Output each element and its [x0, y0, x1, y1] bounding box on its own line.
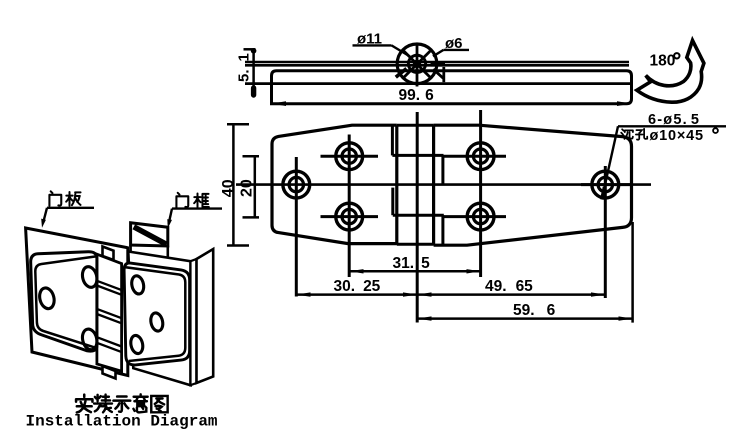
svg-text:99.6: 99.6 — [399, 87, 435, 104]
knuckle barrel — [97, 254, 122, 371]
chen glyph — [621, 129, 633, 139]
dimension 49.65 — [417, 292, 605, 296]
dimension 59.6 — [417, 222, 632, 323]
svg-text:59.6: 59.6 — [513, 302, 556, 319]
left leaf inner edge — [35, 256, 97, 348]
right leaf inner edge — [125, 267, 185, 361]
door panel — [26, 228, 128, 376]
svg-text:ø11: ø11 — [357, 31, 382, 48]
99.6 dimension arrows on bottom edge — [272, 101, 287, 106]
left leaf — [31, 252, 97, 351]
men glyph (door frame) — [176, 193, 188, 208]
holes — [283, 110, 631, 298]
dimension 30.25 — [296, 292, 417, 296]
knuckle left barrel edge — [395, 125, 398, 245]
countersink note — [602, 126, 726, 199]
pin centerline — [416, 112, 419, 323]
dimension 31.5 — [349, 269, 480, 273]
post top face diagonal — [134, 227, 166, 244]
180 degree arrow — [637, 40, 704, 102]
knuckle segment line 1 — [392, 154, 443, 157]
knuckle inner circle (pin) — [408, 55, 425, 72]
right leaf hole B — [149, 312, 164, 332]
leaf top surface line 2 — [245, 64, 629, 67]
horizontal mid centerline — [236, 183, 651, 186]
SIDE VIEW — [245, 43, 632, 107]
knuckle step verticals — [391, 126, 394, 155]
holes H4 H5 shared vertical — [479, 110, 482, 277]
circle diagonal NE-SW — [404, 51, 430, 77]
right leaf hole A — [130, 275, 145, 295]
arrow dash lower-left of circle — [396, 69, 407, 78]
knuckle segment line 2 — [393, 214, 444, 217]
knuckle barrel top edge — [397, 124, 434, 127]
frame board side face — [197, 249, 214, 383]
right flange step vertical — [442, 67, 445, 82]
svg-text:ø10×45: ø10×45 — [650, 128, 704, 144]
svg-text:5.1: 5.1 — [236, 53, 253, 82]
circle diagonal NW-SE — [404, 51, 430, 77]
knuckle barrel bottom edge — [397, 243, 434, 246]
caption: an zhuang shi yi tu — [76, 395, 92, 413]
svg-text:40: 40 — [220, 179, 237, 197]
men glyph (door panel) — [49, 191, 61, 206]
door panel label leader — [41, 208, 94, 228]
right leaf outline — [434, 125, 632, 245]
circle vertical centerline — [416, 43, 419, 87]
INSTALLATION DIAGRAM — [26, 223, 214, 385]
dimension 20 — [243, 156, 260, 217]
svg-text:180: 180 — [650, 53, 676, 70]
hinge body side outline — [272, 71, 632, 104]
dia 11 label — [353, 45, 411, 56]
svg-text:30.25: 30.25 — [334, 278, 381, 295]
door frame label leader — [167, 209, 222, 229]
right flange diagonal — [433, 69, 443, 78]
left leaf hole B — [80, 265, 99, 289]
barrel segment lines — [97, 281, 122, 352]
svg-text:20: 20 — [239, 179, 256, 197]
svg-text:ø6: ø6 — [445, 35, 463, 52]
dia 6 label — [433, 50, 469, 56]
post side edges — [129, 245, 132, 257]
dimension 5.1 — [244, 48, 257, 97]
kong glyph — [636, 129, 647, 140]
svg-text:31.5: 31.5 — [393, 255, 431, 272]
PLAN VIEW — [236, 112, 651, 323]
dimension 40 — [227, 124, 249, 245]
leaf top surface line 1 — [245, 61, 629, 64]
mid reference line (5.1 bottom) — [245, 82, 631, 85]
kuang glyph — [194, 193, 209, 207]
left leaf outline — [272, 125, 397, 243]
pin stub top — [103, 247, 114, 261]
hole H1 left — [295, 157, 298, 297]
pin stub bottom — [103, 366, 116, 379]
svg-text:49.65: 49.65 — [485, 278, 533, 295]
svg-text:6-ø5.5: 6-ø5.5 — [648, 112, 700, 128]
frame board front face — [128, 252, 190, 386]
knuckle outer circle — [397, 44, 437, 84]
frame board step — [191, 259, 197, 385]
arrow dash right of pin — [431, 63, 446, 67]
door frame post top face — [131, 223, 168, 246]
right leaf hole C — [129, 334, 144, 354]
right leaf — [124, 263, 190, 365]
left leaf hole A — [38, 286, 57, 310]
holes H2 H3 shared vertical — [348, 135, 351, 278]
svg-text:Installation Diagram: Installation Diagram — [26, 413, 218, 431]
knuckle right barrel edge — [432, 125, 435, 245]
left leaf hole C — [80, 328, 99, 352]
pin center dot — [413, 60, 421, 68]
ban glyph — [66, 192, 80, 206]
hole H6 right — [604, 166, 607, 298]
